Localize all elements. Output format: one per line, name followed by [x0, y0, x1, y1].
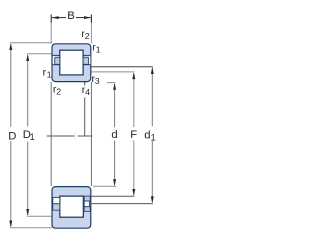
cage segment left (top section) [55, 58, 60, 65]
dimension D1 line [27, 56, 29, 127]
F extension bottom [91, 195, 134, 197]
left white gap (bottom section) [53, 197, 60, 203]
ring body (bottom section) [52, 187, 91, 229]
dimension F line [133, 73, 135, 127]
svg-text:d: d [111, 129, 117, 141]
D extension top [10, 42, 52, 44]
dimension d line [114, 84, 116, 127]
svg-text:2: 2 [85, 31, 90, 41]
right extension line between sections [90, 82, 92, 186]
D extension bottom [10, 227, 52, 229]
D1 extension top [27, 53, 52, 55]
B extension line left [50, 23, 52, 44]
inner ring flange top edge left [53, 64, 60, 66]
roller (bottom section) [60, 196, 84, 217]
inner ring flange top edge right [83, 64, 90, 66]
svg-text:4: 4 [85, 87, 90, 97]
d extension bottom [93, 185, 116, 187]
F extension top [91, 71, 134, 73]
outer ring right flange tip line [83, 54, 91, 56]
r4 extension line to axis [84, 82, 86, 86]
svg-text:3: 3 [95, 76, 100, 86]
dimension B line [52, 17, 66, 19]
svg-text:1: 1 [47, 70, 52, 80]
outer+inner ring body (top section) [52, 44, 91, 82]
cage segment right (top section) [83, 58, 89, 65]
dimension D line [10, 45, 12, 127]
left cage segment (bottom section) [53, 204, 60, 210]
B arrow left [52, 16, 59, 19]
left extension line between sections [50, 82, 52, 186]
svg-text:2: 2 [56, 86, 61, 96]
d1 extension bottom [91, 203, 152, 205]
roller (top section) [60, 50, 83, 75]
outer ring left flange tip line [53, 54, 61, 56]
d extension top [107, 82, 115, 84]
D1 extension bottom [27, 215, 52, 217]
right gap slot between ring flanges [89, 55, 91, 64]
B tick right [90, 15, 92, 23]
svg-text:D: D [8, 130, 16, 142]
B extension line right [90, 23, 92, 44]
left gap slot between ring flanges [53, 55, 55, 64]
dimension d1 line [151, 68, 153, 126]
B arrow right [84, 16, 91, 19]
svg-text:F: F [130, 129, 137, 141]
svg-text:1: 1 [151, 132, 156, 142]
right cage segment upper (bottom section) [84, 196, 90, 201]
right cage segment lower (bottom section) [84, 207, 90, 212]
svg-text:1: 1 [96, 45, 101, 55]
d1 extension top [91, 66, 152, 68]
axis centerline [47, 135, 75, 137]
B tick left [50, 15, 52, 23]
svg-text:1: 1 [30, 132, 35, 142]
right white gap (bottom section) [84, 201, 89, 207]
svg-text:B: B [67, 10, 75, 22]
